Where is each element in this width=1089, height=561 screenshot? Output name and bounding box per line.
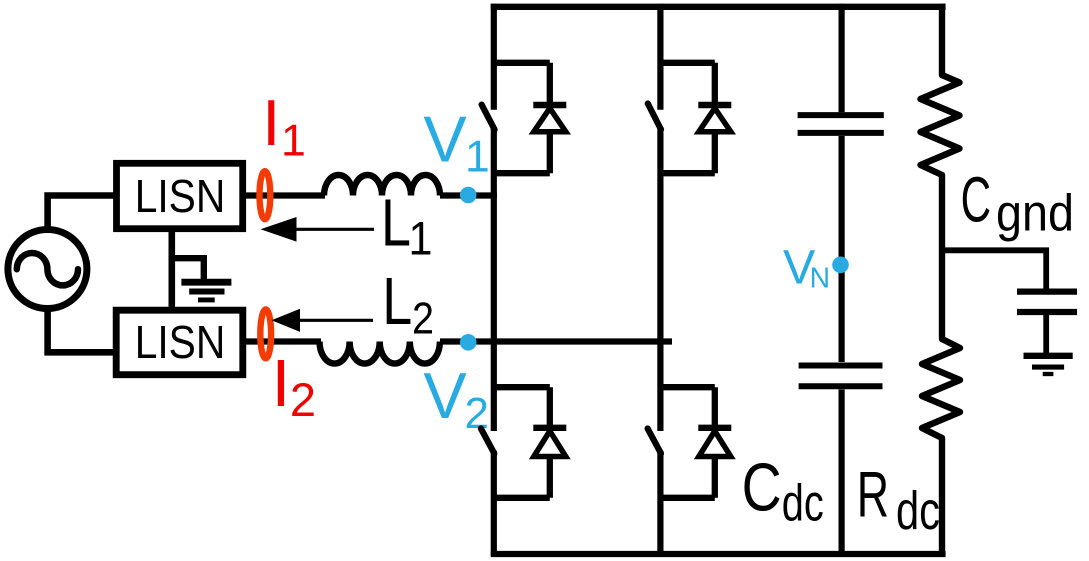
svg-text:2: 2 [412,295,434,344]
Cdc branch vertical [838,4,844,556]
LISN box 2 [116,310,243,375]
LISN box 1 [117,163,243,228]
arrow to L2 [298,319,373,322]
wire Rdc midpoint to Cgnd [942,250,1046,289]
top rail [491,4,946,10]
svg-text:V: V [423,359,467,432]
wire LISN2 to L2 [244,338,321,344]
bottom rail [491,551,946,557]
diode D4 [698,428,731,457]
inductor L2 [320,342,440,364]
capacitor Cdc upper [798,115,884,133]
label V2 [423,359,489,438]
svg-text:LISN: LISN [135,170,226,222]
svg-text:I: I [272,346,291,421]
svg-text:1: 1 [409,212,433,265]
svg-text:L: L [382,265,412,339]
svg-text:R: R [857,458,889,531]
node V2 [460,334,477,351]
current probe I2 (red ellipse) [260,310,271,359]
label I1 [262,86,306,165]
node VN [832,257,849,274]
AC source VS [8,230,87,309]
svg-text:I: I [262,86,280,159]
switch Q2 blade [648,104,661,130]
current probe I1 (red ellipse) [260,171,271,219]
wire L1 to bridge [440,192,497,198]
svg-text:C: C [961,163,992,235]
switch Q3 blade [481,429,494,454]
diode D3 [533,428,566,457]
wire L2 to bridge mid rail [440,338,672,344]
svg-text:1: 1 [281,116,306,165]
diode D2 [698,105,731,132]
wire Cgnd to ground [1043,315,1049,353]
svg-text:1: 1 [465,132,490,181]
label V1 [423,102,489,181]
diode D1 [533,105,566,132]
label VN [783,241,830,295]
label I2 [272,346,316,426]
capacitor Cgnd [1017,292,1077,312]
wire LISN1-LISN2 interconnect [169,230,176,309]
switch Q4 blade [648,429,661,454]
svg-text:dc: dc [896,481,940,541]
svg-text:L: L [381,187,411,261]
arrow to L1 [295,228,374,231]
cell Q1/D1 branches [494,63,550,173]
node V1 [460,187,477,204]
cell Q3/D3 branches [494,387,550,498]
ground (Cgnd) [1024,356,1073,374]
svg-text:gnd: gnd [996,185,1074,243]
switch Q1 blade [482,105,495,130]
svg-text:LISN: LISN [135,316,226,368]
svg-text:V: V [423,102,467,175]
ground (LISN) [181,282,231,300]
wire ground branch [172,258,204,280]
svg-text:N: N [810,262,830,294]
inductor L1 [324,175,440,196]
wire AC top to LISN1 [48,196,114,227]
leg B vertical [657,4,663,556]
resistor Rdc upper [921,4,961,556]
wire LISN1 to L1 [244,192,325,198]
capacitor Cdc lower [799,366,883,387]
cell Q2/D2 branches [660,63,714,173]
leg A vertical [491,4,497,556]
svg-text:2: 2 [290,373,316,426]
cell Q4/D4 branches [660,387,714,498]
svg-text:C: C [742,451,782,526]
svg-text:dc: dc [782,475,824,533]
wire AC bottom to LISN2 [48,312,114,353]
